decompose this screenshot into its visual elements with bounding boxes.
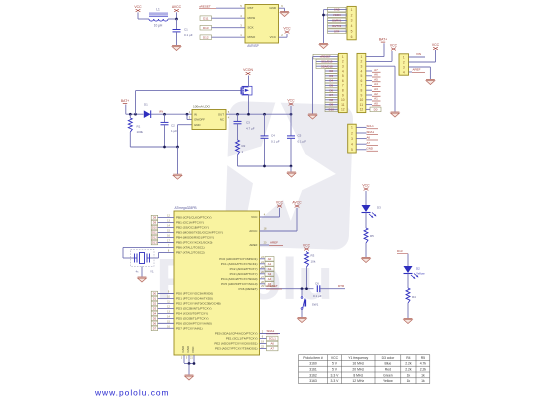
node D8 [151, 215, 174, 220]
svg-text:www.pololu.com: www.pololu.com [94, 388, 170, 398]
wire [168, 18, 177, 20]
svg-text:5 V: 5 V [332, 368, 338, 372]
diode D1 [144, 103, 151, 119]
node junction [247, 113, 250, 116]
svg-text:SDA1: SDA1 [367, 130, 375, 134]
svg-text:D2: D2 [153, 302, 157, 306]
svg-text:VCON: VCON [333, 13, 341, 17]
svg-text:1: 1 [342, 55, 344, 59]
svg-text:D13: D13 [203, 26, 209, 30]
svg-text:12: 12 [360, 108, 364, 112]
node D9 [151, 220, 174, 225]
node D5 [151, 316, 174, 321]
svg-text:PD4 (XCK0/T0/PTCXY): PD4 (XCK0/T0/PTCXY) [176, 312, 208, 316]
wire VCC pin 4 [260, 216, 280, 218]
node AREF [409, 68, 426, 73]
svg-text:A7: A7 [367, 141, 371, 145]
node A4 [366, 82, 381, 86]
svg-text:PD3 (OC2B/INT1/PTCXY): PD3 (OC2B/INT1/PTCXY) [176, 307, 212, 311]
ground [173, 174, 182, 179]
wire AVCC pin 18 [260, 230, 298, 232]
svg-text:nRESET: nRESET [266, 284, 278, 288]
svg-text:D8: D8 [153, 216, 157, 220]
node D9 [325, 102, 338, 107]
svg-text:2: 2 [351, 13, 353, 17]
svg-text:A0: A0 [268, 257, 272, 261]
capacitor C3 4.7 uF [234, 113, 255, 140]
svg-text:PB7 (XTAL2/TOSC2): PB7 (XTAL2/TOSC2) [176, 251, 205, 255]
svg-text:D7: D7 [329, 93, 333, 97]
wire VCC pin 2 [409, 61, 436, 63]
node A4 [260, 276, 275, 281]
node A0 [366, 101, 381, 105]
svg-text:PC5 (ADC5/PTCXY/SCL0): PC5 (ADC5/PTCXY/SCL0) [221, 282, 257, 286]
node A7 [260, 346, 279, 351]
svg-text:D3 color: D3 color [382, 356, 395, 360]
wire [125, 105, 127, 115]
svg-text:VIN: VIN [416, 52, 421, 56]
IC U1 left pin numbers [167, 215, 170, 329]
node D2 [325, 69, 338, 74]
svg-text:D0: D0 [153, 292, 157, 296]
svg-text:D4: D4 [329, 79, 333, 83]
svg-text:VCC: VCC [283, 27, 291, 31]
svg-text:0.1 µF: 0.1 µF [271, 140, 280, 144]
svg-text:C4: C4 [271, 134, 275, 138]
svg-text:BAT+: BAT+ [121, 99, 129, 103]
svg-text:D13: D13 [397, 249, 403, 253]
svg-text:PD5 (OC0B/T1/PTCXY): PD5 (OC0B/T1/PTCXY) [176, 317, 209, 321]
wire resonator gnd [141, 267, 143, 277]
wire GND pin 3 [366, 65, 395, 67]
connector right 12-pin [357, 53, 366, 112]
svg-text:GND: GND [269, 6, 277, 10]
power flag AVCC [172, 5, 182, 19]
svg-text:A2: A2 [268, 267, 272, 271]
svg-text:PB4 (MISO0/RXD1/PTCXY): PB4 (MISO0/RXD1/PTCXY) [176, 236, 214, 240]
svg-text:PAD: PAD [191, 346, 195, 353]
svg-text:R5: R5 [370, 234, 374, 238]
node nRESET [199, 4, 245, 8]
LED D3 [362, 205, 382, 218]
ground [426, 80, 435, 85]
svg-text:1: 1 [360, 55, 362, 59]
svg-text:NC: NC [220, 118, 224, 122]
wire LDO GND pin [178, 124, 193, 126]
ground [280, 12, 289, 17]
svg-text:VCC: VCC [390, 44, 398, 48]
node SDA1 [356, 130, 378, 135]
power flag AVCC [292, 201, 302, 208]
node A2 [260, 266, 275, 271]
svg-text:OUT: OUT [218, 112, 224, 116]
node SCL1 [356, 124, 378, 129]
wire VCON [248, 76, 250, 85]
svg-text:0.1 µF: 0.1 µF [184, 33, 193, 37]
node D10 [151, 225, 174, 230]
svg-text:D5: D5 [153, 317, 157, 321]
ground [319, 44, 328, 49]
power flag VCON [243, 68, 253, 75]
svg-text:5: 5 [351, 148, 353, 152]
node D12 [200, 35, 245, 40]
inductor L1 10 uH [149, 8, 168, 28]
svg-text:Yellow: Yellow [416, 272, 425, 276]
node GND [356, 147, 378, 152]
svg-text:PC1 (ADC1/PTCXY/SCK1): PC1 (ADC1/PTCXY/SCK1) [221, 262, 258, 266]
svg-text:5: 5 [360, 74, 362, 78]
svg-text:AREF: AREF [249, 243, 257, 247]
svg-text:VCC: VCC [270, 35, 277, 39]
svg-text:D2: D2 [416, 267, 420, 271]
svg-text:Green: Green [383, 373, 393, 377]
svg-text:A6: A6 [271, 342, 275, 346]
ground [287, 172, 296, 177]
svg-text:D8: D8 [329, 98, 333, 102]
svg-text:3: 3 [351, 137, 353, 141]
svg-text:D4: D4 [153, 312, 157, 316]
node A1 [366, 97, 381, 101]
svg-text:VCC: VCC [251, 215, 258, 219]
svg-text:VCC: VCC [276, 201, 284, 205]
resonator Y1 [131, 250, 155, 274]
svg-text:SCL1: SCL1 [269, 337, 276, 341]
wire VCC pin 2 [366, 60, 392, 62]
svg-text:VCC: VCC [303, 244, 311, 248]
svg-text:D1: D1 [144, 103, 148, 107]
IC U1 ATmega328PB body [174, 211, 260, 355]
node D6 [325, 88, 338, 93]
wire bottom rail [130, 146, 177, 148]
svg-text:Red: Red [385, 368, 391, 372]
svg-text:100k: 100k [137, 130, 144, 134]
svg-text:R5: R5 [421, 356, 425, 360]
svg-text:PB6 (XTAL1/TOSC1): PB6 (XTAL1/TOSC1) [176, 246, 205, 250]
svg-text:4: 4 [342, 69, 344, 73]
svg-text:11: 11 [360, 103, 364, 107]
svg-text:GND: GND [181, 345, 185, 353]
svg-text:PD2 (PTCXY/INT0/OC3B/OC4B): PD2 (PTCXY/INT0/OC3B/OC4B) [176, 302, 221, 306]
ground [138, 277, 147, 282]
wire XTAL2 [159, 251, 175, 253]
ground [404, 319, 413, 324]
node A1 [260, 261, 275, 266]
svg-text:8 MHz: 8 MHz [353, 373, 363, 377]
svg-text:D1: D1 [153, 297, 157, 301]
connector I2C 5-pin [348, 124, 357, 153]
node A7 [366, 68, 381, 72]
wire [151, 113, 192, 115]
svg-text:D2: D2 [329, 69, 333, 73]
wire BAT+ pin 1 [366, 56, 384, 58]
node D7 [325, 93, 338, 98]
watermark [156, 96, 353, 312]
svg-text:MISO: MISO [248, 35, 256, 39]
svg-text:D3: D3 [153, 307, 157, 311]
node junction gate wire [134, 113, 137, 116]
svg-text:R2: R2 [242, 144, 246, 148]
svg-text:PD1 (PTCXY/OC4A/TXD0): PD1 (PTCXY/OC4A/TXD0) [176, 297, 213, 301]
wire [407, 274, 409, 289]
capacitor C5 0.1 uF [287, 113, 306, 166]
svg-text:5: 5 [351, 30, 353, 34]
power flag VCC [134, 5, 142, 19]
svg-text:PC3 (ADC3/PTCXY): PC3 (ADC3/PTCXY) [230, 272, 258, 276]
node D8 [325, 98, 338, 103]
wire [407, 254, 409, 266]
power flag BAT+ [379, 38, 387, 43]
svg-text:7: 7 [342, 84, 344, 88]
IC U1 right pin names [214, 215, 258, 351]
node D12 [151, 235, 174, 240]
svg-text:C3: C3 [246, 121, 250, 125]
svg-text:4: 4 [351, 24, 353, 28]
svg-text:DTR: DTR [338, 284, 345, 288]
node D13 [151, 240, 174, 245]
LED D2 Yellow [404, 266, 426, 279]
svg-text:SDA/D18: SDA/D18 [321, 64, 333, 68]
svg-text:7: 7 [360, 84, 362, 88]
svg-text:3162: 3162 [309, 373, 317, 377]
node SDA1 [260, 329, 281, 334]
svg-text:5 V: 5 V [332, 362, 338, 366]
svg-text:1 µF: 1 µF [171, 129, 177, 133]
svg-text:1k: 1k [407, 373, 411, 377]
node D3 [325, 74, 338, 79]
svg-text:ON/OFF: ON/OFF [194, 118, 205, 122]
svg-text:D10: D10 [329, 108, 335, 112]
variants table [299, 355, 430, 384]
svg-text:3160: 3160 [309, 362, 317, 366]
svg-text:D9: D9 [153, 221, 157, 225]
svg-text:1: 1 [351, 126, 353, 130]
node D5 [325, 83, 338, 88]
svg-text:D12: D12 [152, 236, 157, 240]
svg-text:PB5 (PTCXY/XCK1/SCK0): PB5 (PTCXY/XCK1/SCK0) [176, 241, 212, 245]
svg-text:2: 2 [342, 60, 344, 64]
svg-text:R1: R1 [137, 125, 141, 129]
node D11 [151, 230, 174, 235]
node A6 [260, 341, 279, 346]
svg-text:10 µH: 10 µH [154, 24, 163, 28]
svg-text:2.2k: 2.2k [405, 368, 412, 372]
svg-text:12 MHz: 12 MHz [352, 379, 364, 383]
ground [308, 114, 317, 119]
wire [177, 147, 179, 174]
svg-text:Pololu item #: Pololu item # [303, 356, 323, 360]
svg-text:VCC: VCC [362, 184, 370, 188]
svg-text:L1: L1 [156, 8, 160, 12]
node AREF [260, 241, 284, 246]
power flag VCC [283, 27, 291, 34]
node A0 [260, 256, 275, 261]
svg-text:1k: 1k [407, 379, 411, 383]
svg-text:A4: A4 [268, 277, 272, 281]
node A5 [260, 281, 275, 286]
node D4 [325, 78, 338, 83]
svg-text:AREF: AREF [413, 68, 421, 72]
node SCL1 [260, 336, 279, 341]
capacitor C1 0.1 uF [173, 19, 193, 45]
wire [365, 213, 367, 229]
svg-text:6: 6 [351, 35, 353, 39]
svg-text:D6: D6 [329, 88, 333, 92]
svg-text:GND: GND [334, 8, 340, 12]
capacitor C4 0.1 uF [261, 113, 280, 166]
svg-text:PD6 (OC0A/PTCXY/AIN0): PD6 (OC0A/PTCXY/AIN0) [176, 321, 212, 325]
node junction [175, 18, 178, 21]
pin names AVRISP [248, 6, 277, 39]
node D1 [151, 296, 174, 301]
svg-text:VCC: VCC [287, 99, 295, 103]
connector serial 6-pin [347, 6, 356, 39]
svg-text:9: 9 [360, 93, 362, 97]
wire [290, 166, 292, 172]
pin numbers AVRISP [240, 4, 283, 37]
node GND [328, 7, 348, 12]
node D0/RX1 [328, 18, 348, 23]
svg-text:IN: IN [194, 112, 197, 116]
svg-text:3: 3 [403, 65, 405, 69]
svg-text:PD0 (PTCXY/OC3A/RXD0): PD0 (PTCXY/OC3A/RXD0) [176, 292, 213, 296]
node nRESET label [266, 284, 282, 289]
wire to ground [324, 9, 328, 11]
node nRESET wire [260, 288, 314, 290]
svg-text:PC0 (ADC0/PTCXY/MISO1): PC0 (ADC0/PTCXY/MISO1) [219, 257, 257, 261]
svg-text:D11: D11 [203, 16, 209, 20]
power flag VCC [362, 184, 370, 191]
svg-text:D7: D7 [153, 326, 157, 330]
svg-text:8: 8 [360, 89, 362, 93]
wire [365, 191, 367, 205]
node SCL/D19 [316, 59, 338, 64]
svg-text:4: 4 [351, 143, 353, 147]
svg-text:PD7 (PTCXY/AIN1): PD7 (PTCXY/AIN1) [176, 326, 203, 330]
svg-text:20 MHz: 20 MHz [352, 368, 364, 372]
svg-text:GND: GND [367, 147, 373, 151]
svg-text:SCL1: SCL1 [367, 124, 375, 128]
svg-text:6: 6 [360, 79, 362, 83]
switch SW1 [301, 287, 319, 317]
svg-text:D9: D9 [329, 103, 333, 107]
svg-text:D12: D12 [203, 35, 209, 39]
svg-text:GND: GND [194, 123, 200, 127]
ground [391, 112, 400, 117]
wire GND pin 3 [409, 66, 431, 68]
ground [185, 375, 194, 380]
svg-text:10k: 10k [311, 260, 316, 264]
svg-text:D13: D13 [152, 241, 157, 245]
svg-text:AVCC: AVCC [172, 5, 182, 9]
svg-text:Yellow: Yellow [383, 379, 393, 383]
IC U1 left pin names [176, 216, 223, 331]
svg-text:A7: A7 [374, 68, 378, 72]
svg-text:12: 12 [341, 108, 345, 112]
svg-text:2: 2 [351, 131, 353, 135]
connector 4-pin power [399, 54, 409, 75]
svg-text:ATmega328PB: ATmega328PB [175, 206, 198, 210]
node junction R1 [129, 113, 132, 116]
capacitor C6 0.1 uF [313, 281, 345, 298]
svg-text:4.7k: 4.7k [420, 362, 427, 366]
power flag VCC [276, 201, 284, 208]
capacitor C2 1 uF [161, 113, 178, 147]
svg-text:4: 4 [403, 70, 405, 74]
svg-text:10: 10 [341, 98, 345, 102]
svg-text:VIN: VIN [159, 110, 163, 114]
svg-text:D3: D3 [329, 74, 333, 78]
svg-text:1: 1 [351, 8, 353, 12]
node D13 [200, 25, 245, 30]
resistor R3 10k [305, 251, 316, 290]
node A6 [356, 135, 378, 140]
node DTR [328, 29, 348, 34]
node SDA/D18 [316, 64, 338, 69]
node A5 [366, 77, 381, 81]
transistor Q1 PMOS [241, 84, 252, 114]
svg-text:Blue: Blue [385, 362, 392, 366]
node A2 [366, 92, 381, 96]
svg-text:D6: D6 [153, 321, 157, 325]
svg-text:0.1 µF: 0.1 µF [313, 294, 322, 298]
svg-text:D0/RX1: D0/RX1 [332, 19, 342, 23]
svg-text:PE1 (SCL1/T4/PTCXY): PE1 (SCL1/T4/PTCXY) [226, 337, 258, 341]
power flag VCC [432, 43, 440, 50]
svg-text:3161: 3161 [309, 368, 317, 372]
svg-text:C6: C6 [315, 281, 319, 285]
node D2 [151, 301, 174, 306]
svg-text:PB3 (MOSI0/TXD1/OC2A/PTCXY): PB3 (MOSI0/TXD1/OC2A/PTCXY) [176, 231, 223, 235]
svg-text:1: 1 [403, 55, 405, 59]
svg-text:R4: R4 [406, 356, 410, 360]
node VIN [409, 52, 426, 57]
wire bottom rail 2 [238, 165, 292, 167]
svg-text:VCC: VCC [432, 43, 440, 47]
svg-text:SW1: SW1 [312, 303, 319, 307]
wire output rail [226, 113, 291, 115]
svg-text:nRESET: nRESET [199, 4, 211, 8]
node D0 [366, 107, 381, 112]
node D10 [325, 107, 338, 112]
regulator U3 100mA LDO [189, 104, 230, 129]
svg-text:SCL/D19: SCL/D19 [321, 60, 333, 64]
wire to MOSFET gate [135, 91, 137, 115]
ground [362, 258, 371, 263]
svg-text:2.2k: 2.2k [420, 368, 427, 372]
power flag VCC [390, 44, 398, 51]
svg-text:VCC: VCC [331, 356, 339, 360]
node D7 [151, 326, 174, 331]
svg-text:3.3 V: 3.3 V [331, 373, 340, 377]
svg-text:A3: A3 [268, 272, 272, 276]
node D13 [397, 249, 408, 254]
wire VCC pin 2 [279, 36, 288, 38]
svg-text:GND: GND [186, 345, 190, 353]
svg-text:2.2k: 2.2k [405, 362, 412, 366]
svg-text:D10: D10 [152, 226, 157, 230]
resistor R5 [364, 228, 374, 257]
node D1/TX1 [328, 24, 348, 29]
wire chip gnd pins [183, 355, 185, 363]
svg-text:11: 11 [341, 103, 345, 107]
svg-text:A4: A4 [374, 82, 378, 86]
node A3 [260, 271, 275, 276]
svg-text:3.3 V: 3.3 V [331, 379, 340, 383]
svg-text:5: 5 [342, 74, 344, 78]
svg-text:PB2 (SS/OC1B/PTCXY): PB2 (SS/OC1B/PTCXY) [176, 226, 209, 230]
power flag VCC [287, 99, 295, 106]
svg-text:SCK: SCK [248, 26, 254, 30]
